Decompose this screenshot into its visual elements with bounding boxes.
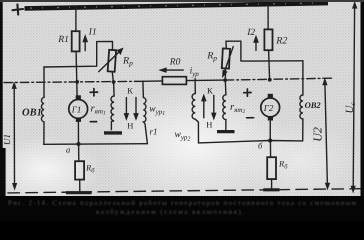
svg-text:I1: I1 <box>88 28 97 38</box>
plus mark G2 <box>244 89 251 96</box>
voltage arrow U1 (double headed) <box>13 86 15 186</box>
scan border right <box>361 0 364 221</box>
node dot a1 (R1/Г1 on axis) <box>75 80 79 84</box>
resistor R1 <box>72 31 80 51</box>
wire Rp2 top to R2 bottom to OB2 <box>226 41 303 61</box>
equalizing winding w_ur1 coil <box>143 81 148 143</box>
ground under r_ya2 <box>217 130 235 133</box>
termination bar Rb2 <box>263 188 279 191</box>
voltage arrow U2 (double headed) <box>325 82 328 186</box>
resistor R2 <box>264 29 272 50</box>
current arrow I2 <box>255 41 257 50</box>
wire R1 to node <box>76 51 77 96</box>
node dot Rp1 bottom on axis <box>112 80 116 84</box>
resistor R0 <box>162 77 186 85</box>
equalizing dash-dot line (left span) <box>4 81 143 82</box>
svg-text:r1: r1 <box>150 127 158 137</box>
field winding OB1 coil <box>41 67 44 144</box>
K winding arrows (right, up and down) <box>203 100 205 118</box>
svg-text:Н: Н <box>127 121 133 131</box>
series winding r_ya1 coil <box>111 82 114 130</box>
node dot b <box>268 139 272 143</box>
plus terminal of network <box>13 4 24 14</box>
ground under r_ya1 <box>104 131 122 134</box>
rheostat arrow Rp2 <box>225 47 234 72</box>
wire Rp2 bottom to axis node <box>224 69 226 81</box>
bottom wire a-bus left <box>44 143 148 146</box>
wire G1 to node a <box>77 122 79 144</box>
top positive bus bar <box>25 3 329 8</box>
svg-text:б: б <box>258 141 263 151</box>
current arrow I1 <box>84 42 86 51</box>
wire G2 to node b <box>269 121 271 141</box>
brush top G1 <box>76 95 81 99</box>
wire Rp1 bottom to node <box>112 72 113 82</box>
wire bus to R1 <box>75 7 77 32</box>
brush top G2 <box>268 94 273 98</box>
svg-text:R0: R0 <box>169 57 181 67</box>
equalizing winding w_ur2 coil <box>192 79 198 143</box>
svg-text:R1: R1 <box>57 35 69 45</box>
svg-text:К: К <box>207 85 213 95</box>
svg-text:U2: U2 <box>311 127 325 142</box>
scan border left <box>0 0 3 221</box>
brush bottom G1 <box>76 118 81 122</box>
bottom wire right <box>199 141 303 143</box>
brush bottom G2 <box>268 117 273 121</box>
generator G1 circle <box>69 100 88 119</box>
ballast resistor Rb2 <box>269 141 271 158</box>
svg-text:ОВ2: ОВ2 <box>305 100 322 110</box>
equalizing dash-dot line (right span) <box>225 78 332 80</box>
svg-text:Г1: Г1 <box>71 105 82 115</box>
series winding r_ya2 coil <box>223 80 226 130</box>
minus mark G1 <box>90 121 96 123</box>
svg-text:Н: Н <box>206 119 212 129</box>
svg-text:R2: R2 <box>275 36 287 47</box>
wire R2 to axis node <box>269 50 270 79</box>
ballast resistor Rb1 <box>78 144 80 161</box>
svg-text:а: а <box>66 145 70 155</box>
node dot right axis Rp2 <box>223 78 227 82</box>
svg-text:ОВ1: ОВ1 <box>22 107 42 118</box>
scan border top <box>0 0 364 2</box>
caption band <box>0 196 364 221</box>
K winding arrows (left, two down) <box>125 98 127 115</box>
wire bus to R2 <box>267 5 269 30</box>
node dot a <box>77 142 81 146</box>
resistor Rp (left rheostat) <box>108 50 116 72</box>
svg-text:К: К <box>127 85 133 95</box>
rheostat arrow of Rp left <box>99 51 120 72</box>
generator G2 circle <box>261 98 280 117</box>
svg-text:Г2: Г2 <box>263 103 274 113</box>
svg-text:I2: I2 <box>246 28 255 38</box>
minus mark G2 <box>247 117 254 119</box>
svg-text:U1: U1 <box>2 134 12 145</box>
field winding OB2 coil <box>300 61 303 141</box>
svg-text:Рис. 2-14. Схема параллельной: Рис. 2-14. Схема параллельной работы ген… <box>8 199 357 207</box>
resistor Rp2 (right rheostat) <box>222 48 230 68</box>
termination bar Rb1 <box>66 191 92 194</box>
node dot right axis R2/Г2 <box>268 78 272 82</box>
voltage arrow Uc (double headed) <box>353 6 354 188</box>
equalizing wire solid into R0 <box>143 80 163 82</box>
plus mark G1 <box>90 89 97 96</box>
wire OB1 top to R1 to Rp1 <box>44 42 113 68</box>
equalizing wire R0 to right node <box>186 79 225 82</box>
current arrow i_ur (left pointing) <box>165 69 183 71</box>
bottom dashed negative rail <box>8 189 360 193</box>
